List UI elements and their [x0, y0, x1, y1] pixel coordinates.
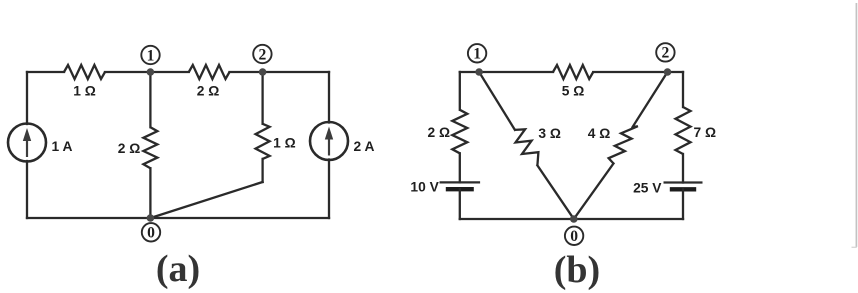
svg-text:1: 1 [473, 46, 481, 63]
svg-text:2 A: 2 A [354, 139, 375, 154]
svg-text:(a): (a) [156, 248, 200, 290]
svg-text:2: 2 [259, 46, 267, 63]
svg-text:(b): (b) [554, 249, 600, 291]
svg-text:2 Ω: 2 Ω [118, 141, 141, 156]
svg-text:4 Ω: 4 Ω [588, 126, 611, 141]
svg-text:25 V: 25 V [633, 180, 662, 195]
svg-text:1 A: 1 A [52, 139, 73, 154]
svg-text:1: 1 [147, 47, 155, 64]
svg-text:2 Ω: 2 Ω [428, 125, 451, 140]
svg-text:1 Ω: 1 Ω [73, 84, 96, 99]
svg-text:2: 2 [662, 45, 670, 62]
svg-text:0: 0 [147, 225, 155, 242]
svg-text:1 Ω: 1 Ω [273, 136, 296, 151]
svg-text:2 Ω: 2 Ω [197, 84, 220, 99]
svg-text:7 Ω: 7 Ω [694, 125, 717, 140]
svg-text:0: 0 [570, 228, 578, 245]
svg-text:3 Ω: 3 Ω [538, 126, 561, 141]
svg-text:5 Ω: 5 Ω [562, 83, 585, 98]
svg-text:10 V: 10 V [410, 179, 439, 194]
